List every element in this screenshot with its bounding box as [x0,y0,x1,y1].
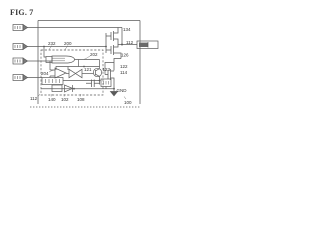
component box on rail [52,85,62,92]
ground [111,89,118,96]
svg-text:FIG. 7: FIG. 7 [10,8,33,17]
outer module box right edge [139,21,141,105]
diode D3 [65,85,73,92]
svg-text:126: 126 [121,53,129,58]
component box 210 wide [42,78,63,85]
component box right bottom [101,79,111,89]
transistor Q4 [93,68,101,80]
wire gate rail output FETs [105,33,107,53]
output connector J5 [137,41,158,49]
transistor Q3 lower-right FET [105,69,114,89]
transistor Q2 lower output FET [111,45,121,59]
svg-text:140: 140 [48,97,56,102]
junction dots [43,46,115,90]
capacitor C1 [86,80,100,88]
wire jog to Q3 [114,59,121,71]
svg-text:122: 122 [120,64,128,69]
wire input1 horizontal [27,27,122,29]
wire input3 [27,60,52,62]
wire drain rail vertical [121,28,123,45]
wire output [122,44,137,46]
wire gate stub lower FET [106,49,111,51]
svg-text:114: 114 [120,70,128,75]
input connector J1 [13,25,28,31]
diode pair D1 D2 [69,69,93,77]
svg-text:102: 102 [61,97,69,102]
outer module box left edge [37,21,39,105]
wire gate stub upper FET [106,35,111,37]
input connector J3 [13,58,28,64]
op-amp U2 [50,61,69,78]
svg-text:134: 134 [123,27,131,32]
svg-text:121: 121 [84,67,92,72]
wire bottom rail [41,88,114,90]
svg-text:204: 204 [41,71,49,76]
svg-text:123: 123 [103,67,111,72]
feedback wire [56,60,100,71]
wire Q4 emitter row [63,81,100,85]
input connector J4 [13,75,28,81]
svg-text:108: 108 [77,97,85,102]
wire input2 horizontal [27,46,106,48]
outer module box bottom dashed edge [30,106,141,108]
svg-text:232: 232 [48,41,56,46]
inner dashed box 200 [41,50,103,95]
svg-text:112: 112 [126,40,134,45]
svg-text:100: 100 [124,100,132,105]
transistor Q1 upper output FET [111,28,122,45]
svg-text:200: 200 [64,41,72,46]
comparator U1 input resistor [44,47,52,63]
comparator U1 gate [52,56,100,68]
outer module box 100 top edge [38,20,140,22]
svg-text:202: 202 [90,52,98,57]
node output junction [121,44,123,46]
input connector J2 [13,44,28,50]
wire input4 [27,77,42,79]
svg-text:112: 112 [30,96,38,101]
svg-text:GND: GND [117,88,128,93]
